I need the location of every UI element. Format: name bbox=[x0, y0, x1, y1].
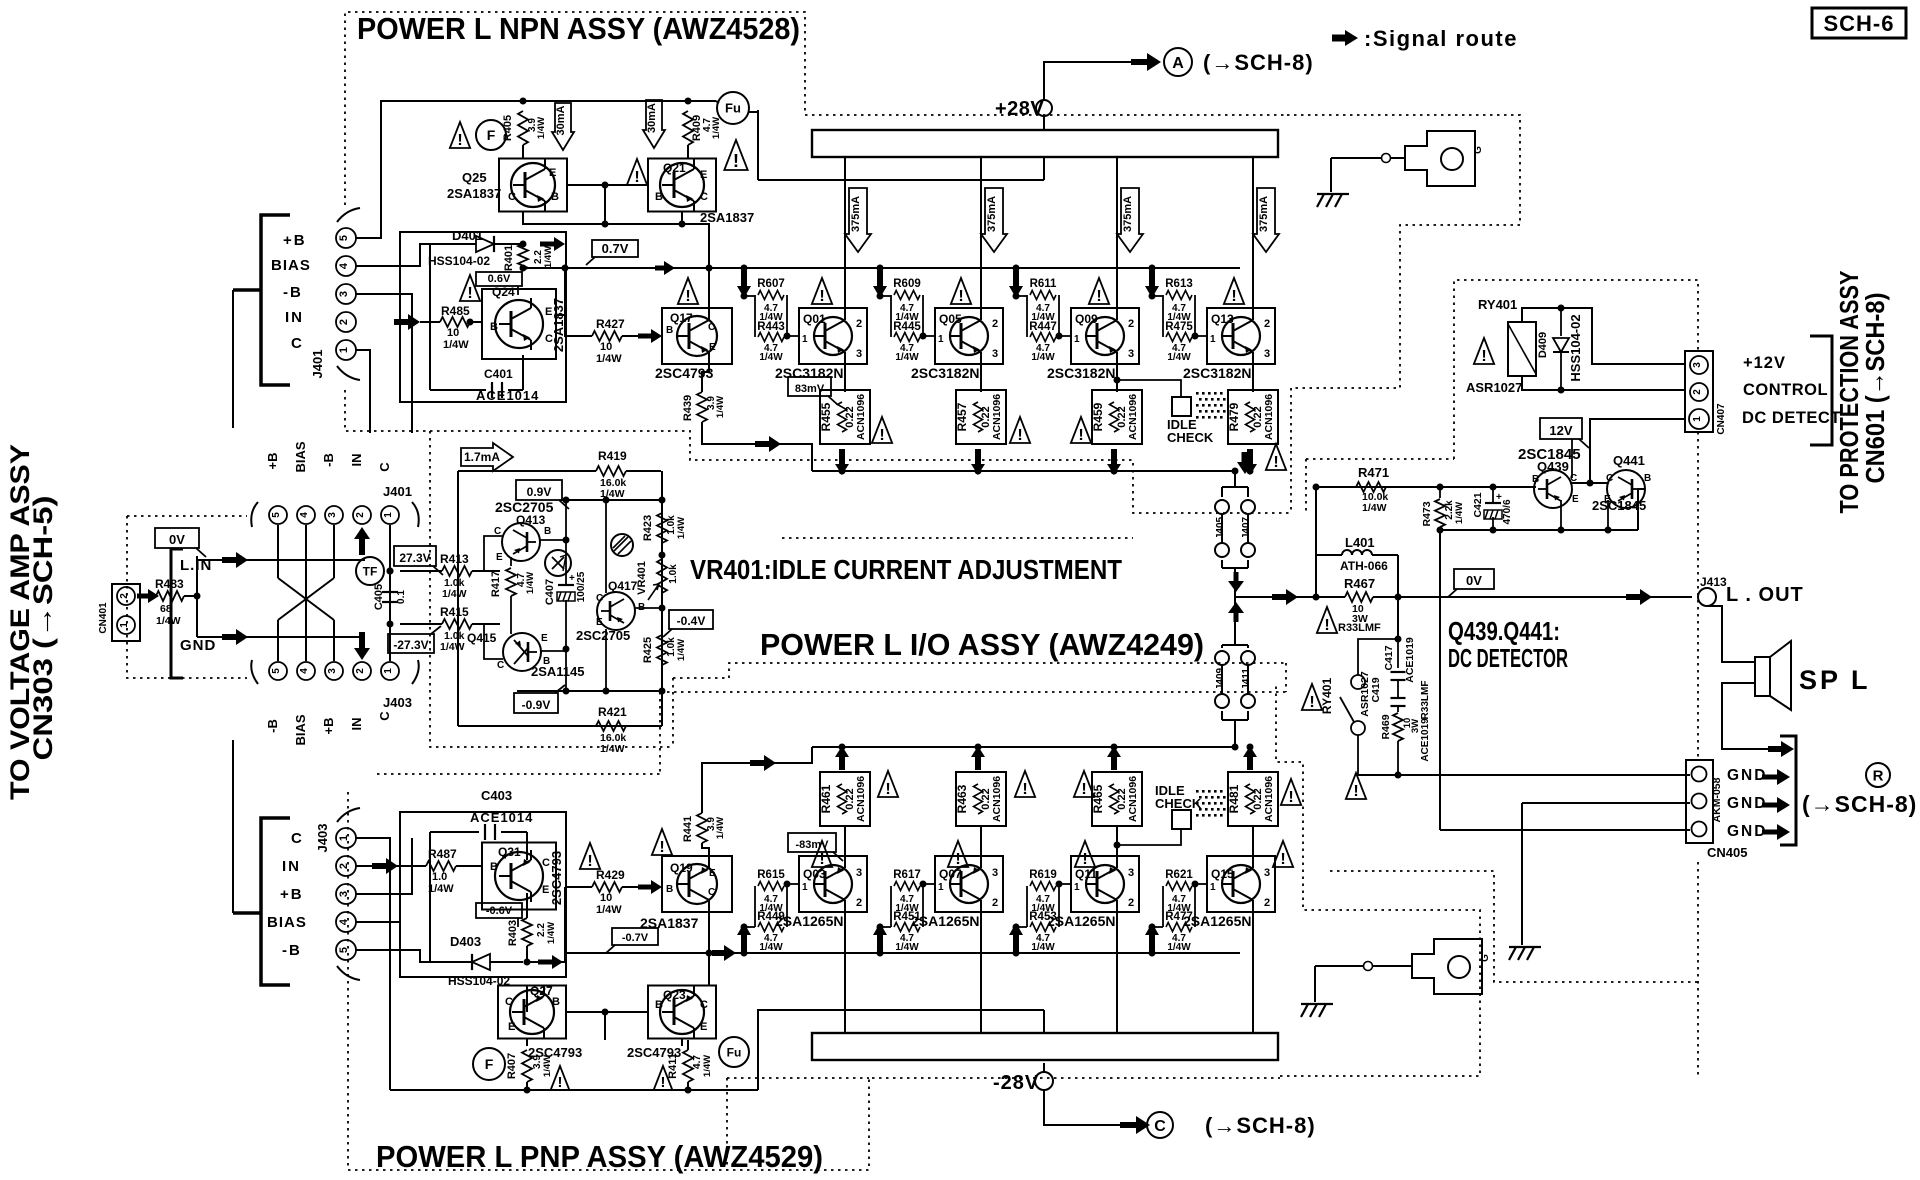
svg-text:10: 10 bbox=[600, 892, 612, 904]
jumper block J409 J411 bbox=[1222, 644, 1248, 646]
svg-text:B: B bbox=[490, 321, 498, 333]
svg-text:ACN1096: ACN1096 bbox=[991, 394, 1003, 440]
wire base Q05 bbox=[923, 335, 935, 337]
svg-text:GND: GND bbox=[180, 637, 216, 654]
wire CN401 node bbox=[196, 556, 198, 637]
svg-text:POWER L I/O ASSY (AWZ4249): POWER L I/O ASSY (AWZ4249) bbox=[760, 627, 1204, 662]
svg-text:B: B bbox=[666, 884, 673, 895]
svg-text:1/4W: 1/4W bbox=[443, 339, 469, 351]
svg-text:ACN1096: ACN1096 bbox=[1127, 776, 1139, 822]
svg-text:SP L: SP L bbox=[1799, 665, 1871, 695]
wires connector columns bbox=[277, 525, 279, 578]
bracket protection labels bbox=[1810, 336, 1832, 445]
svg-text:2SA1265N: 2SA1265N bbox=[1183, 913, 1252, 929]
svg-text:2: 2 bbox=[856, 897, 862, 909]
current arrow 375mA Q09 bbox=[1117, 188, 1143, 252]
capacitor C401 bbox=[430, 389, 486, 391]
potentiometer VR401 bbox=[657, 559, 667, 593]
svg-text:R415: R415 bbox=[440, 605, 469, 619]
dashed border CN405 route bbox=[1697, 432, 1699, 758]
svg-text:!: ! bbox=[1096, 287, 1101, 305]
svg-text:3: 3 bbox=[1128, 348, 1134, 360]
resistor R467 bbox=[1345, 592, 1373, 602]
wires Q415 bbox=[540, 650, 566, 652]
svg-text:R421: R421 bbox=[598, 705, 627, 719]
signal arrow output feed bottom bbox=[750, 755, 776, 771]
wire J405 to node bbox=[1234, 568, 1236, 597]
signal arrow input NPN bbox=[394, 314, 420, 330]
transistor Q05 bbox=[935, 308, 1003, 364]
svg-text:C: C bbox=[497, 660, 504, 671]
signal arrow L out feed bbox=[1272, 589, 1298, 605]
svg-text:!: ! bbox=[1353, 782, 1358, 800]
svg-text:CN405: CN405 bbox=[1707, 845, 1747, 860]
svg-text:C403: C403 bbox=[481, 788, 512, 803]
svg-text:4: 4 bbox=[299, 668, 310, 674]
svg-text:-B: -B bbox=[265, 719, 280, 733]
svg-text:100/25: 100/25 bbox=[576, 571, 587, 602]
svg-text:1: 1 bbox=[938, 334, 944, 345]
wire bus ledge bbox=[758, 179, 1044, 181]
svg-text:!: ! bbox=[1022, 780, 1027, 798]
relay RY401 coil bbox=[1508, 322, 1536, 376]
transistor Q27 bbox=[498, 986, 566, 1039]
svg-text:470/6: 470/6 bbox=[1502, 499, 1513, 524]
svg-text:1/4W: 1/4W bbox=[546, 922, 557, 944]
wire Q23 up to Q19 bbox=[708, 904, 710, 986]
circle Fu top bbox=[717, 92, 749, 124]
wire center bus bbox=[565, 500, 567, 584]
wire bias right rail bbox=[661, 471, 663, 726]
svg-text:!: ! bbox=[733, 150, 739, 171]
svg-text:2: 2 bbox=[355, 512, 366, 518]
svg-text:C: C bbox=[505, 996, 513, 1008]
wire output feed top bbox=[702, 422, 812, 471]
resistor R473 bbox=[1437, 484, 1444, 491]
svg-text:A: A bbox=[1172, 55, 1184, 72]
svg-text:!: ! bbox=[879, 426, 884, 444]
wire pin3 -B down bbox=[356, 294, 412, 433]
svg-text:R481: R481 bbox=[1227, 784, 1241, 813]
wire CN405 pin2 gnd bbox=[1522, 802, 1690, 804]
wire GND return pin1 bbox=[1357, 774, 1690, 776]
svg-text:2: 2 bbox=[338, 863, 350, 869]
resistor pair Q15 bbox=[1152, 926, 1163, 928]
svg-text:R401: R401 bbox=[503, 245, 515, 271]
svg-text:R407: R407 bbox=[506, 1053, 518, 1079]
wire emitter Q11 to box bbox=[1116, 826, 1118, 864]
transistor Q417 bbox=[597, 592, 635, 630]
wire Q25 Q21 join bbox=[567, 184, 648, 186]
svg-text:2: 2 bbox=[119, 593, 130, 599]
svg-text:R465: R465 bbox=[1091, 784, 1105, 813]
svg-text:1/4W: 1/4W bbox=[759, 352, 783, 363]
svg-text:1/4W: 1/4W bbox=[156, 615, 181, 627]
svg-text:!: ! bbox=[661, 1075, 666, 1091]
svg-text:CN601 (→SCH-8): CN601 (→SCH-8) bbox=[1860, 293, 1890, 484]
svg-text:Q439.Q441:: Q439.Q441: bbox=[1448, 616, 1560, 646]
wire emitter Q09 to box bbox=[1116, 356, 1118, 392]
transistor Q415 bbox=[503, 633, 541, 671]
legend signal route arrow bbox=[1332, 30, 1358, 46]
svg-text:2SA1145: 2SA1145 bbox=[531, 664, 585, 679]
svg-text:R615: R615 bbox=[757, 869, 785, 881]
svg-text:1/4W: 1/4W bbox=[542, 1055, 553, 1077]
svg-text:R423: R423 bbox=[642, 515, 654, 541]
transistor Q03 bbox=[799, 856, 867, 912]
svg-text:R429: R429 bbox=[596, 868, 625, 882]
wire R473 to CN405 pin3 bbox=[1439, 530, 1441, 830]
svg-text:R439: R439 bbox=[682, 395, 694, 421]
svg-text:C: C bbox=[508, 191, 516, 203]
transistor Q07 bbox=[935, 856, 1003, 912]
svg-text:83mV: 83mV bbox=[795, 383, 825, 395]
signal arrow tap Q11 bbox=[1013, 950, 1020, 957]
svg-text:0.1: 0.1 bbox=[396, 590, 407, 604]
signal arrow tap Q15 bbox=[1149, 950, 1156, 957]
svg-text:E: E bbox=[700, 169, 707, 181]
svg-text:ACE1014: ACE1014 bbox=[470, 810, 533, 825]
svg-text:GND: GND bbox=[1727, 823, 1767, 840]
connector J401 cable side bracket bbox=[261, 215, 290, 385]
svg-text:!: ! bbox=[558, 1075, 563, 1091]
svg-text:3: 3 bbox=[992, 867, 998, 879]
wire pin1 C bottom bbox=[356, 838, 390, 1090]
svg-text:ACN1096: ACN1096 bbox=[1127, 394, 1139, 440]
svg-text:3: 3 bbox=[1264, 348, 1270, 360]
warning triangle RY401 bbox=[1302, 684, 1322, 710]
transistor Q01 bbox=[799, 308, 867, 364]
svg-text:1/4W: 1/4W bbox=[525, 572, 536, 594]
emitter resistor box R463 bbox=[956, 772, 1006, 826]
svg-text:B: B bbox=[655, 191, 663, 203]
transistor Q15 bbox=[1207, 856, 1275, 912]
wire base rail top bbox=[522, 268, 524, 270]
svg-text:R485: R485 bbox=[441, 304, 470, 318]
svg-text:12V: 12V bbox=[1549, 423, 1572, 438]
svg-text:2: 2 bbox=[1264, 897, 1270, 909]
svg-text:3: 3 bbox=[1692, 362, 1703, 368]
svg-text:R: R bbox=[1873, 767, 1884, 784]
svg-text:SCH-6: SCH-6 bbox=[1823, 11, 1894, 36]
heatsink icon bottom bbox=[1412, 939, 1482, 994]
svg-text:CHECK: CHECK bbox=[1167, 430, 1214, 445]
resistor R429 bbox=[565, 886, 592, 888]
warning triangle R469 bbox=[1346, 773, 1366, 799]
wire L out line bbox=[1398, 596, 1692, 598]
svg-text:AKM-058: AKM-058 bbox=[1711, 777, 1723, 822]
svg-text:!: ! bbox=[1078, 426, 1083, 444]
flag 27.3V bbox=[394, 546, 436, 566]
svg-text:3: 3 bbox=[327, 668, 338, 674]
svg-text:ACN1096: ACN1096 bbox=[855, 394, 867, 440]
svg-text:!: ! bbox=[1481, 347, 1486, 365]
svg-text:R469: R469 bbox=[1380, 714, 1392, 739]
svg-text:0.7V: 0.7V bbox=[602, 241, 629, 256]
resistor R421 bbox=[596, 721, 626, 731]
svg-text:C: C bbox=[596, 593, 603, 604]
svg-text:!: ! bbox=[587, 852, 592, 870]
svg-text:3: 3 bbox=[1128, 867, 1134, 879]
svg-text:!: ! bbox=[685, 287, 690, 305]
svg-text:1/4W: 1/4W bbox=[600, 743, 625, 755]
svg-text:+B: +B bbox=[280, 886, 304, 903]
svg-text:R613: R613 bbox=[1165, 278, 1193, 290]
svg-text:J405: J405 bbox=[1215, 516, 1226, 539]
wire collector Q13 bbox=[1252, 157, 1254, 316]
svg-text:C405: C405 bbox=[373, 584, 385, 610]
svg-text:1.7mA: 1.7mA bbox=[464, 450, 500, 464]
svg-text:ACE1019: ACE1019 bbox=[1420, 718, 1431, 762]
svg-text:375mA: 375mA bbox=[1258, 196, 1270, 232]
svg-text:B: B bbox=[490, 861, 498, 873]
svg-text:1.0: 1.0 bbox=[432, 871, 447, 883]
signal arrow into J405 bbox=[1237, 452, 1253, 474]
wire -28V to node C bbox=[1044, 1090, 1120, 1125]
dashed border I/O assy bbox=[430, 431, 1292, 513]
svg-text:G: G bbox=[1473, 146, 1484, 154]
svg-text:C: C bbox=[291, 335, 302, 352]
svg-text:Fu: Fu bbox=[725, 101, 741, 116]
wire Q19 emitter to R441 bbox=[702, 843, 709, 864]
svg-text:C417: C417 bbox=[1383, 645, 1395, 670]
wire output feed bottom bbox=[702, 747, 812, 813]
svg-text:BIAS: BIAS bbox=[271, 257, 311, 274]
wire base Q09 bbox=[1059, 335, 1071, 337]
svg-text:ACN1096: ACN1096 bbox=[855, 776, 867, 822]
svg-text:Q19: Q19 bbox=[670, 861, 693, 875]
svg-text:!: ! bbox=[1280, 850, 1285, 868]
svg-text:D401: D401 bbox=[452, 228, 483, 243]
svg-text:R455: R455 bbox=[819, 402, 833, 431]
capacitor C417 bbox=[1397, 639, 1399, 668]
wire emitter Q15 to box bbox=[1252, 826, 1254, 864]
resistor R427 bbox=[565, 268, 592, 336]
svg-text:!: ! bbox=[1081, 780, 1086, 798]
svg-text:R443: R443 bbox=[757, 321, 785, 333]
svg-text:1: 1 bbox=[938, 882, 944, 893]
circle F bottom bbox=[473, 1048, 505, 1080]
signal arrow L out bbox=[1626, 589, 1652, 605]
svg-text:2: 2 bbox=[338, 319, 350, 325]
signal arrow emitter Q09 bbox=[1107, 449, 1121, 475]
svg-text:J403: J403 bbox=[315, 824, 330, 853]
svg-text:1/4W: 1/4W bbox=[715, 396, 726, 418]
wire base Q11 bbox=[1058, 884, 1060, 886]
wire collector Q15 bbox=[1252, 904, 1254, 1033]
dashed border heatsink box top bbox=[1287, 115, 1520, 513]
wires relay bbox=[1522, 308, 1685, 364]
svg-text:R611: R611 bbox=[1030, 278, 1057, 290]
svg-text:E: E bbox=[549, 167, 556, 179]
svg-text:R411: R411 bbox=[667, 1053, 679, 1079]
svg-text:Q417: Q417 bbox=[608, 579, 638, 593]
svg-text:DC DETECT: DC DETECT bbox=[1742, 409, 1841, 427]
svg-text:R463: R463 bbox=[955, 784, 969, 813]
svg-text:+B: +B bbox=[321, 718, 336, 735]
svg-text:!: ! bbox=[634, 168, 639, 186]
wire collector Q09 bbox=[1116, 157, 1118, 316]
svg-text:ACN1096: ACN1096 bbox=[1263, 776, 1275, 822]
wire +28V stem bbox=[1043, 116, 1045, 130]
svg-text:C: C bbox=[708, 887, 715, 898]
circle Fu bottom bbox=[719, 1037, 749, 1067]
current arrow 375mA Q13 bbox=[1253, 188, 1279, 252]
svg-text:3: 3 bbox=[1264, 867, 1270, 879]
svg-text:E: E bbox=[709, 342, 716, 353]
svg-text:-B: -B bbox=[282, 942, 302, 959]
svg-text:Q11: Q11 bbox=[1075, 867, 1097, 881]
resistor R469 bbox=[1397, 706, 1399, 712]
wire pin3 pin4 stubs bbox=[356, 838, 412, 894]
diode D409 bbox=[1560, 308, 1562, 336]
transistor Q13 bbox=[1207, 308, 1275, 364]
signal arrow emitter Q03 bbox=[835, 746, 849, 770]
svg-text:C: C bbox=[377, 711, 392, 721]
svg-text:Q17: Q17 bbox=[670, 311, 693, 325]
flag 0V right bbox=[1454, 569, 1494, 589]
svg-text:RY401: RY401 bbox=[1478, 297, 1517, 312]
wire R413 line bbox=[387, 568, 394, 575]
signal arrows at output node bbox=[1228, 572, 1244, 592]
svg-text:2: 2 bbox=[992, 318, 998, 330]
svg-text:5: 5 bbox=[338, 235, 350, 241]
svg-text:(→SCH-8): (→SCH-8) bbox=[1203, 50, 1314, 75]
svg-text:ATH-066: ATH-066 bbox=[1340, 559, 1388, 573]
svg-text:TF: TF bbox=[363, 564, 378, 578]
svg-text:R619: R619 bbox=[1029, 869, 1057, 881]
svg-text:!: ! bbox=[958, 287, 963, 305]
svg-text:10: 10 bbox=[447, 327, 459, 339]
svg-text:C419: C419 bbox=[1370, 677, 1382, 702]
dashed border protection assy bbox=[1454, 280, 1698, 459]
svg-text:2SC3182N: 2SC3182N bbox=[1183, 365, 1252, 381]
flag 83mV bbox=[788, 377, 831, 396]
svg-text:1/4W: 1/4W bbox=[676, 517, 687, 539]
svg-text:2SA1837: 2SA1837 bbox=[551, 298, 566, 352]
wire base Q01 bbox=[787, 335, 799, 337]
svg-text:E: E bbox=[508, 1021, 515, 1033]
signal arrow emitter Q15 bbox=[1243, 746, 1257, 770]
diode D403 bbox=[430, 961, 472, 963]
svg-text:375mA: 375mA bbox=[986, 196, 998, 232]
svg-text:375mA: 375mA bbox=[850, 196, 862, 232]
signal arrow after D401 bbox=[540, 237, 565, 251]
svg-text:1: 1 bbox=[383, 512, 394, 518]
signal arrow emitter Q11 bbox=[1107, 746, 1121, 770]
svg-text:10: 10 bbox=[600, 341, 612, 353]
svg-text:Q441: Q441 bbox=[1613, 453, 1645, 468]
bus bar -28V bbox=[812, 1033, 1278, 1060]
idle check square top bbox=[1172, 397, 1191, 416]
svg-text:C: C bbox=[708, 322, 715, 333]
terminal +28V bbox=[1036, 100, 1052, 116]
connector CN401 bbox=[112, 584, 140, 641]
resistor R409 bbox=[683, 111, 693, 145]
svg-text:Q21: Q21 bbox=[663, 161, 686, 175]
svg-text:Q07: Q07 bbox=[939, 867, 962, 881]
hybrid ACE1014 outline bbox=[400, 232, 566, 402]
svg-text:R461: R461 bbox=[819, 784, 833, 813]
svg-text:2SA1265N: 2SA1265N bbox=[1047, 913, 1116, 929]
svg-text:R33LMF: R33LMF bbox=[1420, 681, 1431, 720]
current arrow 375mA Q01 bbox=[845, 188, 871, 252]
svg-text:J401: J401 bbox=[310, 350, 325, 379]
terminal J413 L out bbox=[1698, 588, 1716, 606]
svg-text:J411: J411 bbox=[1241, 668, 1252, 690]
flag -0.7V bbox=[612, 928, 658, 945]
svg-text:!: ! bbox=[885, 780, 890, 798]
svg-text:5: 5 bbox=[271, 512, 282, 518]
transistor Q09 bbox=[1071, 308, 1139, 364]
svg-text:Q03: Q03 bbox=[803, 867, 826, 881]
svg-text:Q25: Q25 bbox=[462, 170, 487, 185]
svg-text:DC DETECTOR: DC DETECTOR bbox=[1448, 643, 1568, 673]
wire heatsink bottom bbox=[1315, 965, 1363, 967]
resistor pair Q05 bbox=[880, 295, 891, 297]
svg-text:1/4W: 1/4W bbox=[428, 883, 454, 895]
svg-text:2SC2705: 2SC2705 bbox=[576, 628, 630, 643]
svg-text:CONTROL: CONTROL bbox=[1743, 381, 1828, 399]
flag 0.7V bbox=[592, 240, 638, 257]
hybrid ACE1014 outline bottom bbox=[400, 812, 566, 977]
svg-text:R427: R427 bbox=[596, 317, 625, 331]
svg-text:1/4W: 1/4W bbox=[895, 352, 919, 363]
svg-text:F: F bbox=[487, 127, 496, 143]
svg-text:2: 2 bbox=[1264, 318, 1270, 330]
svg-text:ASR1027: ASR1027 bbox=[1359, 671, 1371, 717]
resistor R411 bbox=[683, 1050, 693, 1082]
signal arrow output feed top bbox=[755, 436, 781, 452]
resistor R417 bbox=[510, 557, 512, 566]
svg-text:R413: R413 bbox=[440, 552, 469, 566]
svg-text:1/4W: 1/4W bbox=[1167, 942, 1191, 953]
svg-text:Q24: Q24 bbox=[492, 285, 515, 299]
svg-text:!: ! bbox=[1017, 426, 1022, 444]
warning triangles bottom row bbox=[812, 841, 832, 867]
svg-text:1: 1 bbox=[802, 882, 808, 893]
wires Q27 Q23 vertical bbox=[526, 1039, 528, 1046]
resistor pair Q09 bbox=[1016, 295, 1027, 297]
wire bias top rail bbox=[458, 470, 596, 472]
svg-text:POWER L NPN ASSY (AWZ4528): POWER L NPN ASSY (AWZ4528) bbox=[357, 11, 800, 46]
svg-text:IN: IN bbox=[349, 718, 364, 731]
svg-text:1: 1 bbox=[1210, 334, 1216, 345]
svg-text:-27.3V: -27.3V bbox=[393, 638, 428, 652]
svg-text:-0.4V: -0.4V bbox=[677, 614, 706, 628]
svg-text:R441: R441 bbox=[682, 816, 694, 842]
svg-text:IN: IN bbox=[285, 309, 304, 326]
svg-text:2SC3182N: 2SC3182N bbox=[1047, 365, 1116, 381]
svg-text:2SA1837: 2SA1837 bbox=[447, 186, 501, 201]
svg-text:27.3V: 27.3V bbox=[399, 551, 430, 565]
node C arrow bbox=[1120, 1116, 1150, 1134]
svg-text:1: 1 bbox=[1692, 416, 1703, 422]
resistor R407 bbox=[522, 1050, 532, 1082]
svg-text:BIAS: BIAS bbox=[293, 441, 308, 472]
svg-text:-83mV: -83mV bbox=[795, 839, 829, 851]
transistor Q11 bbox=[1071, 856, 1139, 912]
svg-text:-B: -B bbox=[283, 284, 303, 301]
svg-text:IN: IN bbox=[349, 454, 364, 467]
resistor R487 bbox=[398, 865, 426, 867]
svg-text:2: 2 bbox=[1692, 389, 1703, 395]
wire input upper bbox=[197, 559, 365, 561]
svg-text:+B: +B bbox=[283, 232, 307, 249]
bracket L.IN GND bbox=[171, 549, 183, 678]
node A circle bbox=[1164, 48, 1192, 76]
flag 12V bbox=[1540, 418, 1582, 439]
